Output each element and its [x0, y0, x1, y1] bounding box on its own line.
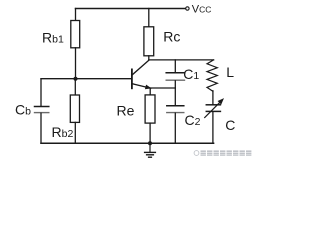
wire collector horizontal	[149, 59, 214, 61]
resistor Rb1	[71, 21, 80, 48]
wire Rc bottom stub to collector node	[148, 56, 150, 60]
watermark	[194, 150, 252, 155]
wire C bottom lead	[212, 112, 214, 143]
wire Cb top lead	[40, 79, 42, 106]
wire C2 bottom lead	[174, 113, 176, 143]
wire L bottom lead	[212, 91, 214, 104]
resistor Rb2	[70, 95, 79, 122]
inductor L	[207, 60, 217, 91]
wire C1 top lead	[174, 60, 176, 72]
wire VCC top rail	[76, 8, 186, 10]
svg-text:Rc: Rc	[163, 28, 180, 44]
wire Cb bottom lead	[40, 113, 42, 143]
svg-text:C: C	[225, 117, 235, 133]
wire Rb2 bottom lead	[74, 122, 76, 143]
wire Re top stub	[149, 88, 151, 95]
wire emitter horizontal to C1-C2 node	[151, 87, 175, 89]
capacitor C2	[167, 106, 184, 113]
capacitor C1	[166, 73, 184, 80]
svg-text:L: L	[226, 64, 234, 80]
transistor Q1 emitter lead with arrow	[132, 84, 151, 90]
wire base horizontal	[41, 78, 131, 80]
resistor Rc	[144, 27, 154, 56]
capacitor Cb	[35, 107, 49, 113]
wire C1-C2 middle lead	[174, 81, 176, 105]
wire Re bottom lead	[149, 123, 151, 143]
wire Rb1 top lead	[75, 9, 77, 21]
node VCC terminal circle	[186, 7, 189, 10]
wire Rb2 top lead	[74, 79, 76, 95]
junction base node B	[74, 77, 78, 81]
capacitor C variable	[205, 98, 224, 117]
ground	[145, 143, 156, 157]
svg-text:VCC: VCC	[192, 4, 212, 16]
junction ground node	[148, 141, 152, 145]
wire ground bottom rail	[41, 142, 214, 144]
transistor Q1 base bar	[131, 69, 133, 88]
wire Rc top lead	[148, 9, 150, 27]
resistor Re	[145, 95, 155, 123]
transistor Q1 collector lead	[132, 60, 149, 75]
wire Rb1 bottom lead to base node	[75, 48, 77, 79]
svg-text:Re: Re	[117, 103, 135, 119]
